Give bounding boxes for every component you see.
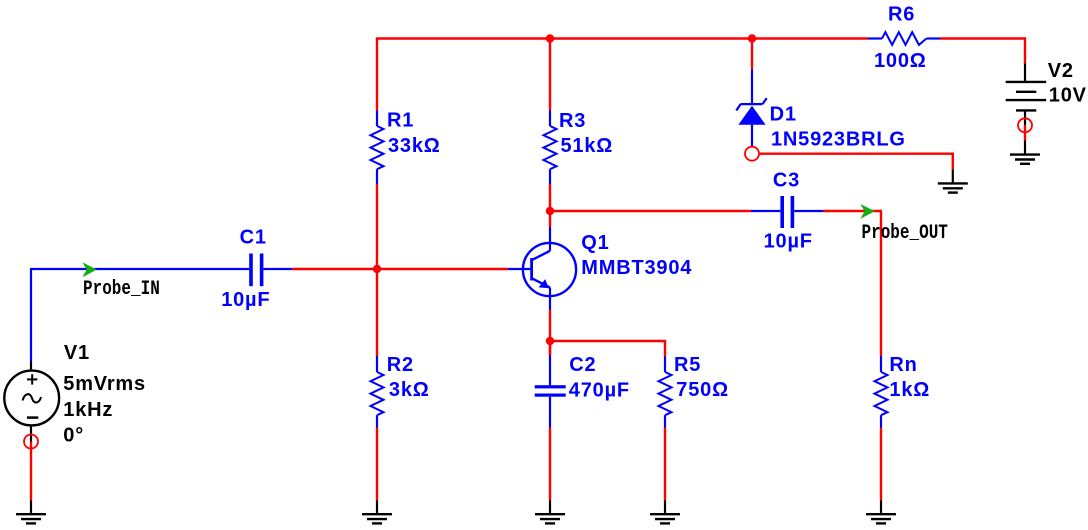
ground (C2) (535, 514, 565, 523)
ground (D1 net) (938, 183, 968, 192)
resistor R2 leads (376, 356, 378, 372)
battery V2 (1006, 82, 1046, 111)
wire R2 bottom red (376, 428, 378, 501)
wire D1 cathode lead blue (751, 69, 753, 105)
svg-text:V1: V1 (64, 342, 90, 364)
ground (Rn) (866, 514, 896, 523)
resistor R3 leads (549, 111, 551, 127)
ground lead black (R2) (376, 501, 378, 514)
source V1 lead top black (30, 362, 32, 372)
wire top rail blue lead left of R6 (868, 37, 882, 39)
svg-text:10µF: 10µF (764, 231, 813, 253)
resistor R3 (544, 126, 557, 169)
svg-text:MMBT3904: MMBT3904 (581, 257, 692, 279)
wire emitter red down (549, 310, 551, 355)
svg-text:470µF: 470µF (569, 379, 630, 401)
wire top rail blue lead right of R6 (927, 37, 941, 39)
svg-text:750Ω: 750Ω (676, 379, 729, 401)
wire top rail red left part (377, 39, 868, 40)
junction dot top rail D1 (748, 34, 756, 42)
resistor R2 (371, 372, 384, 415)
ground (R2) (362, 514, 392, 523)
wire emitter node to R5 red (550, 341, 665, 357)
wire C2 top lead blue (549, 355, 551, 385)
wire output net red (823, 211, 881, 356)
svg-text:R3: R3 (559, 110, 586, 132)
pin circle D1 anode (745, 147, 759, 161)
svg-text:33kΩ: 33kΩ (388, 135, 441, 157)
wire C2 bottom lead blue (549, 397, 551, 428)
svg-text:C1: C1 (240, 226, 267, 248)
wire base lead blue (508, 268, 532, 270)
wire D1 anode lead blue (751, 125, 753, 147)
wire R5 bottom red (664, 428, 666, 501)
resistor R1 leads (376, 111, 378, 127)
svg-text:10V: 10V (1049, 85, 1087, 107)
svg-text:Rn: Rn (889, 354, 917, 376)
junction dot base node (373, 265, 381, 273)
wire R2 top red (376, 269, 378, 356)
wire C3 right lead blue (794, 210, 823, 212)
wire D1 column top red (751, 39, 753, 70)
wire base net red (292, 268, 508, 270)
ground (V2) (1010, 155, 1040, 164)
battery V2 lead top black (1024, 63, 1026, 82)
wire collector lead blue (549, 227, 551, 251)
wire C2 top red (549, 341, 551, 355)
capacitor C3 (780, 196, 794, 228)
wire V2 minus red (1024, 125, 1026, 140)
svg-text:R2: R2 (387, 354, 414, 376)
ground lead black (V2) (1024, 141, 1026, 155)
pin circle V2 minus (1018, 118, 1032, 132)
ground lead black (R5) (664, 501, 666, 514)
svg-text:C3: C3 (773, 169, 800, 191)
svg-text:R5: R5 (674, 354, 701, 376)
svg-text:1kHz: 1kHz (63, 399, 113, 421)
junction dot collector node (546, 207, 554, 215)
svg-text:51kΩ: 51kΩ (561, 135, 614, 157)
svg-text:D1: D1 (770, 104, 797, 126)
ground (R5) (650, 514, 680, 523)
svg-text:Probe_IN: Probe_IN (83, 278, 160, 300)
svg-text:3kΩ: 3kΩ (389, 379, 430, 401)
svg-text:10µF: 10µF (221, 289, 270, 311)
ground lead black (V1) (30, 501, 32, 514)
pin circle V1 minus (24, 435, 38, 449)
wire V1 minus red (30, 442, 32, 501)
capacitor C1 (249, 254, 263, 287)
battery V2 lead bottom black (1024, 110, 1026, 125)
svg-text:V2: V2 (1048, 60, 1074, 82)
wire emitter lead blue (549, 288, 551, 310)
wire C1 right blue (263, 268, 292, 270)
ground lead black (D1 net) (952, 169, 954, 182)
probe arrow Probe_IN (82, 262, 96, 277)
resistor R6 (882, 32, 927, 45)
svg-text:R6: R6 (888, 3, 915, 25)
resistor R5 (659, 372, 672, 415)
svg-text:0°: 0° (63, 425, 84, 447)
probe arrow Probe_OUT (860, 204, 874, 219)
ground (V1) (16, 514, 46, 523)
ground lead black (Rn) (880, 501, 882, 514)
wire top rail red right part to V2 corner (940, 39, 1025, 64)
svg-text:5mVrms: 5mVrms (63, 373, 146, 395)
transistor Q1 (523, 243, 576, 296)
svg-text:1N5923BRLG: 1N5923BRLG (771, 129, 906, 151)
wire D1 anode to ground red (759, 154, 953, 170)
wire C3 left lead blue (751, 210, 780, 212)
wire Rn bottom red (880, 428, 882, 501)
resistor R5 leads (664, 357, 666, 373)
svg-text:1kΩ: 1kΩ (889, 379, 930, 401)
resistor Rn (875, 372, 888, 415)
wire collector node to C3 red (550, 210, 751, 212)
capacitor C2 (535, 385, 566, 397)
svg-text:Probe_OUT: Probe_OUT (862, 223, 949, 245)
junction dot emitter node (546, 337, 554, 345)
source V1 lead bottom black (30, 425, 32, 441)
ground lead black (C2) (549, 501, 551, 514)
source V1 (4, 371, 59, 426)
wire input blue from V1 to C1 (31, 269, 249, 362)
svg-text:C2: C2 (569, 354, 596, 376)
wire R1 bottom to base node red (376, 184, 378, 269)
svg-text:Q1: Q1 (581, 232, 609, 254)
resistor R1 (371, 126, 384, 169)
svg-text:100Ω: 100Ω (874, 50, 927, 72)
zener diode D1 (736, 98, 766, 125)
wire R3 bottom to collector node red (549, 184, 551, 227)
wire R3 column top red (549, 39, 551, 111)
svg-text:R1: R1 (387, 110, 414, 132)
wire R1 column top red (376, 39, 378, 111)
junction dot top rail R3 (546, 34, 554, 42)
wire C2 bottom red (549, 428, 551, 501)
resistor Rn leads (880, 356, 882, 372)
